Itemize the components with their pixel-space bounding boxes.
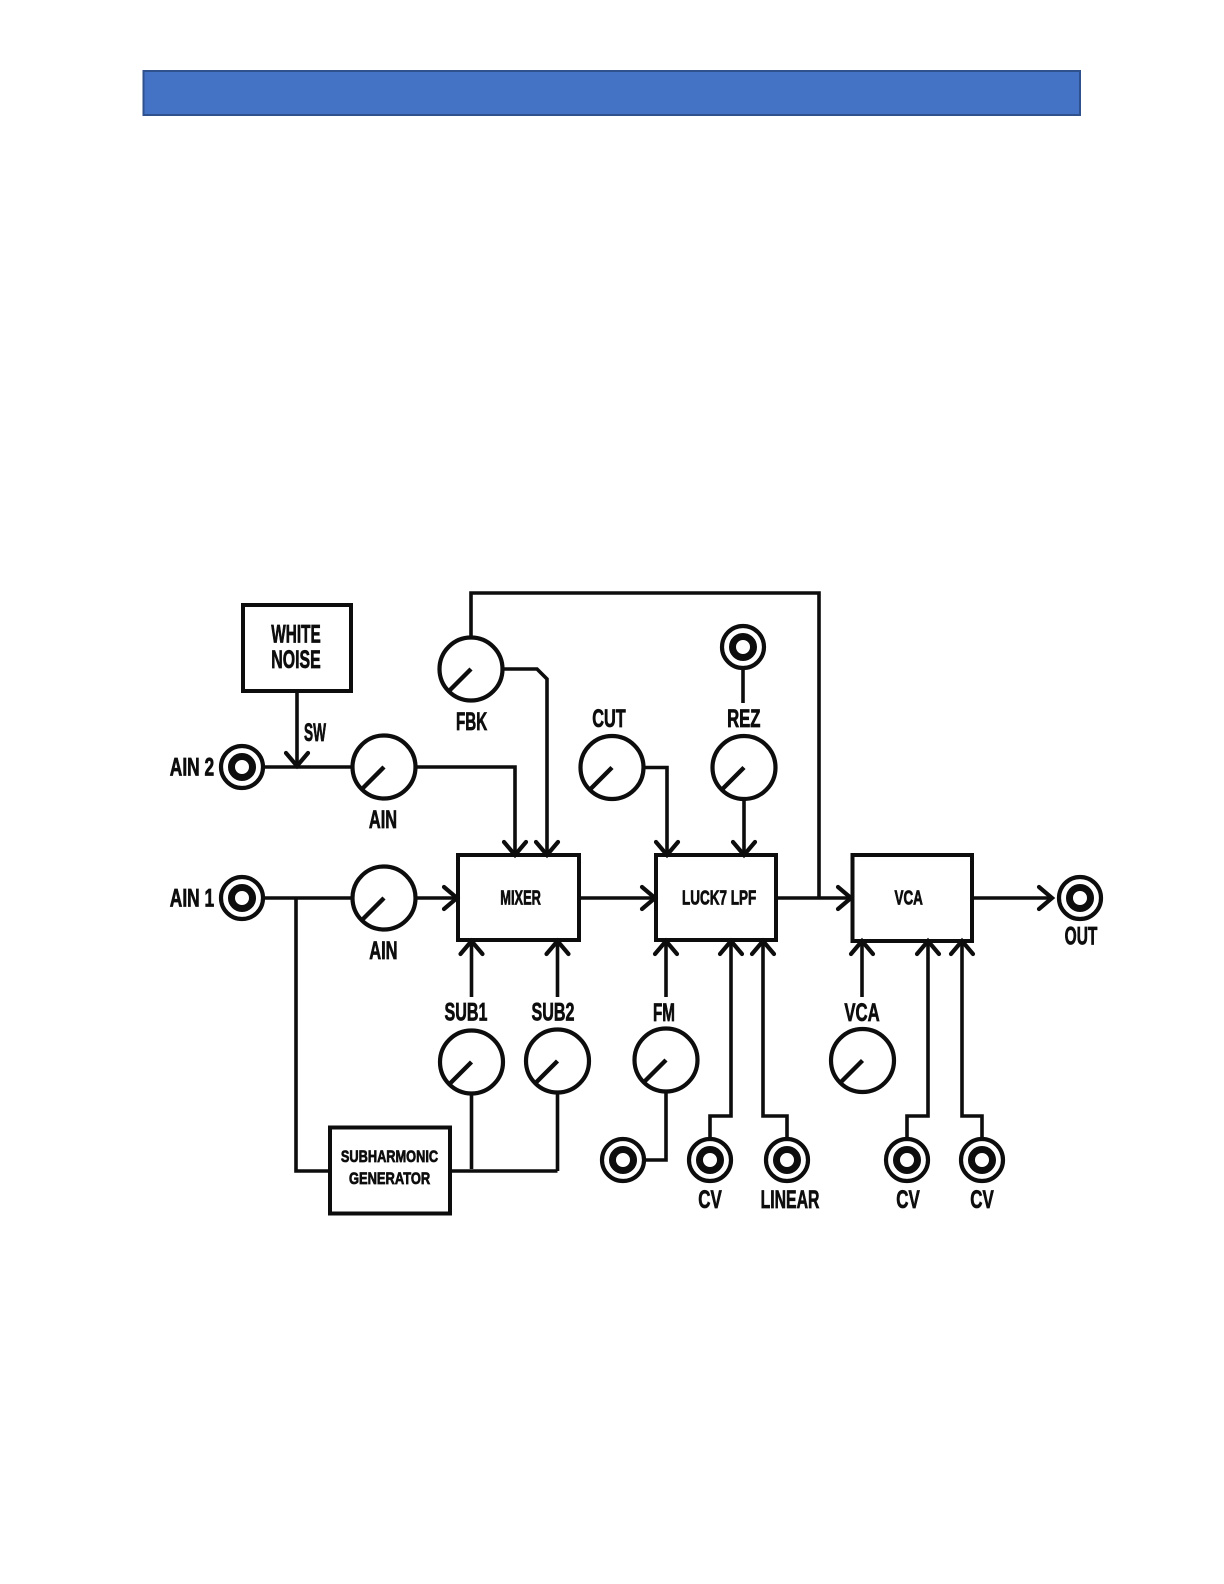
- svg-text:AIN 2: AIN 2: [170, 754, 214, 782]
- svg-text:LINEAR: LINEAR: [761, 1186, 820, 1214]
- svg-text:AIN: AIN: [369, 937, 397, 965]
- svg-text:CV: CV: [970, 1186, 994, 1214]
- wire LPF to VCA, arrow right: [776, 887, 851, 909]
- svg-text:OUT: OUT: [1065, 923, 1098, 951]
- jack OUT: [1059, 877, 1101, 951]
- jack CV (VCA 1): [886, 1139, 928, 1214]
- svg-text:REZ: REZ: [727, 705, 760, 733]
- svg-text:VCA: VCA: [895, 888, 923, 910]
- knob FM: [635, 1029, 698, 1092]
- svg-text:FBK: FBK: [456, 708, 487, 736]
- svg-text:SUB1: SUB1: [445, 999, 488, 1027]
- wire LINEAR jack to LPF bottom, arrow up: [752, 941, 787, 1137]
- svg-text:WHITE: WHITE: [271, 621, 320, 649]
- knob CUT: [581, 705, 644, 799]
- svg-text:CUT: CUT: [592, 705, 626, 733]
- wire SUB1 to MIXER bottom, arrow up: [445, 941, 488, 1027]
- jack AIN 1: [170, 877, 263, 919]
- block SUBHARMONIC GENERATOR: [330, 1128, 450, 1214]
- block VCA: [853, 855, 973, 941]
- wire AIN knob to MIXER top, arrow down: [416, 767, 526, 855]
- wire SUB1 knob to subgen line: [470, 1096, 474, 1170]
- header bar: [144, 71, 1081, 115]
- wire SUB2 to MIXER bottom, arrow up: [532, 941, 575, 1027]
- wire CV jack to LPF bottom, arrow up: [710, 941, 742, 1137]
- jack AIN 2: [170, 746, 263, 788]
- svg-text:SW: SW: [304, 719, 326, 747]
- knob SUB2: [526, 1030, 589, 1093]
- svg-text:AIN 1: AIN 1: [170, 885, 214, 913]
- block WHITE NOISE: [243, 605, 351, 691]
- svg-text:CV: CV: [698, 1186, 722, 1214]
- jack CV (LPF): [689, 1139, 731, 1214]
- wire FM jack to FM knob: [646, 1094, 666, 1161]
- knob VCA: [831, 1029, 894, 1092]
- wire CUT knob to LPF top, arrow down: [645, 768, 679, 856]
- wire subgen output to SUB knobs: [450, 1169, 558, 1173]
- wire FBK knob to MIXER top, arrow down: [503, 669, 558, 855]
- wire REZ knob to LPF top, arrow down: [733, 800, 755, 856]
- svg-text:SUBHARMONIC: SUBHARMONIC: [341, 1147, 438, 1166]
- wire FM to LPF bottom, arrow up: [653, 941, 677, 1027]
- jack LINEAR: [761, 1139, 820, 1214]
- svg-text:CV: CV: [896, 1186, 920, 1214]
- wire AIN1 jack to AIN knob: [264, 896, 353, 900]
- svg-text:FM: FM: [653, 999, 675, 1027]
- wire AIN1 branch down to subharmonic generator: [296, 898, 328, 1171]
- knob REZ: [713, 736, 776, 799]
- svg-text:MIXER: MIXER: [500, 887, 541, 910]
- wire AIN knob to MIXER, arrow right: [416, 887, 457, 909]
- wire CV jack 1 to VCA bottom, arrow up: [907, 941, 939, 1137]
- wire VCA knob to VCA bottom, arrow up: [844, 941, 879, 1027]
- knob AIN (lower): [353, 867, 416, 966]
- knob SUB1: [440, 1031, 503, 1094]
- svg-text:AIN: AIN: [369, 806, 397, 834]
- svg-text:LUCK7 LPF: LUCK7 LPF: [682, 886, 756, 909]
- svg-text:GENERATOR: GENERATOR: [349, 1169, 430, 1188]
- wire SUB2 knob down: [556, 1095, 560, 1172]
- jack CV (VCA 2): [961, 1139, 1003, 1214]
- wire SW: white noise to AIN2 line, arrow down: [286, 693, 326, 766]
- jack FM CV: [602, 1139, 644, 1181]
- knob AIN (upper): [353, 736, 416, 835]
- svg-text:SUB2: SUB2: [532, 999, 575, 1027]
- wire REZ jack stub down: [727, 670, 760, 733]
- wire VCA to OUT jack, arrow right: [972, 887, 1052, 909]
- wire MIXER to LPF, arrow right: [579, 887, 655, 909]
- wire CV jack 2 to VCA bottom, arrow up: [951, 941, 982, 1137]
- wire feedback loop: LPF output up over to FBK knob: [471, 593, 819, 898]
- svg-text:NOISE: NOISE: [271, 646, 320, 674]
- wire AIN2 jack to AIN knob: [264, 765, 353, 769]
- block LUCK7 LPF: [656, 855, 776, 940]
- jack REZ: [722, 626, 764, 668]
- block MIXER: [458, 855, 579, 940]
- knob FBK: [440, 638, 503, 737]
- svg-text:VCA: VCA: [844, 999, 879, 1027]
